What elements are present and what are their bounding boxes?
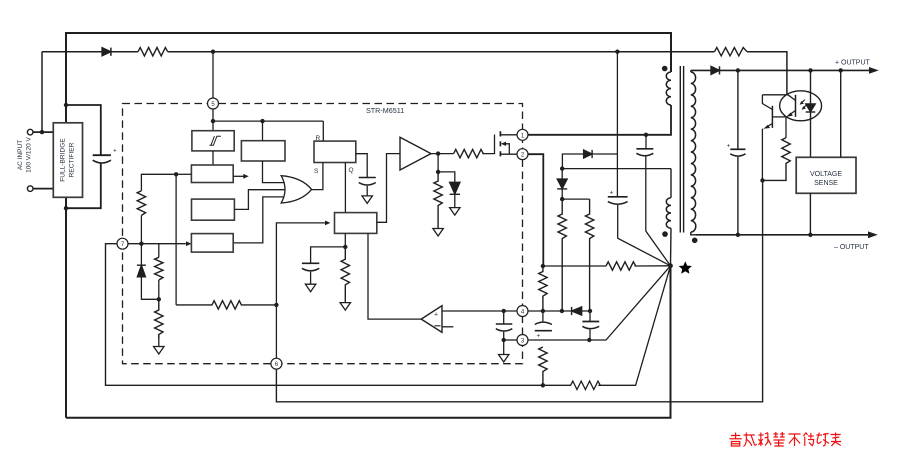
node drain cap	[644, 133, 648, 137]
node feedback pin6	[274, 303, 278, 307]
svg-text:VOLTAGE: VOLTAGE	[810, 171, 842, 178]
pin 2	[517, 149, 528, 160]
core lines	[680, 66, 683, 233]
primary polarity dot	[662, 66, 668, 72]
wire pin4 line right of pin	[528, 310, 590, 312]
node snubber top	[560, 166, 564, 170]
wire node199 right	[562, 198, 589, 200]
svg-text:SENSE: SENSE	[814, 180, 838, 187]
wire to gate	[482, 135, 494, 154]
wire AC tap vertical	[41, 52, 43, 132]
zener diode on pin7 node	[140, 244, 142, 266]
wire osc to box3	[212, 151, 214, 165]
wire AC upper	[33, 131, 53, 133]
wire node left to cap	[311, 247, 346, 263]
wire Q output down to box5	[344, 163, 346, 213]
node vcc rail left	[211, 119, 215, 123]
secondary winding	[690, 70, 692, 72]
driver buffer	[400, 137, 431, 170]
wire left frame lower	[65, 197, 67, 417]
wire pin3 left	[504, 339, 517, 341]
ground	[305, 284, 315, 292]
wire comparator out to box5	[368, 233, 421, 319]
wire -output line	[695, 234, 868, 236]
diode startup	[102, 48, 111, 56]
svg-text:+: +	[113, 148, 117, 155]
ground	[433, 229, 443, 237]
diode pin4 line pointing left	[572, 307, 582, 315]
capacitor pin4 filter	[503, 311, 505, 324]
capacitor output filter	[737, 70, 739, 149]
svg-text:RECTIFIER: RECTIFIER	[69, 142, 76, 177]
wire box2 to OR input1	[263, 161, 285, 183]
svg-text:+: +	[537, 333, 541, 340]
wire pin7 return	[106, 244, 542, 386]
pin 6	[271, 358, 282, 369]
AC input terminal upper	[27, 129, 33, 135]
aux polarity dot	[662, 231, 668, 237]
MOSFET channel dashes	[499, 131, 501, 156]
capacitor bulk C1	[93, 154, 111, 156]
SR latch box	[314, 141, 356, 162]
svg-text:+ OUTPUT: + OUTPUT	[835, 60, 871, 67]
wire box3 left node	[176, 173, 191, 175]
wire bulk cap bottom	[66, 163, 101, 208]
wire aux top line	[562, 168, 671, 170]
pin 1	[517, 129, 528, 140]
node vcc rail mid	[260, 119, 264, 123]
wire box5 right loop to buffer	[377, 154, 400, 223]
svg-text:+: +	[727, 143, 731, 150]
node box5 bottom	[343, 245, 347, 249]
wire feedback into box5 with arrow	[276, 223, 325, 305]
node zener bottom	[157, 297, 161, 301]
pin 3	[517, 335, 528, 346]
resistor pin2 chain upper (543)	[539, 266, 547, 311]
resistor R left upper	[137, 191, 145, 216]
wire startup line y=51.7	[42, 51, 102, 53]
wire S input from OR	[311, 163, 323, 190]
box4	[191, 234, 233, 253]
ground	[362, 196, 372, 204]
oscillator hysteresis glyph	[209, 136, 221, 145]
resistor star to pin2 chain (y=266)	[543, 265, 606, 267]
node output cap	[736, 68, 740, 72]
node driver output	[436, 151, 440, 155]
wire after diode	[111, 51, 138, 53]
svg-text:S: S	[314, 168, 319, 175]
svg-text:FULL-BRIDGE: FULL-BRIDGE	[60, 138, 67, 182]
node pin3 line cap	[587, 338, 591, 342]
node pin7 divider	[139, 242, 143, 246]
wire startup to opto supply	[168, 51, 715, 53]
svg-text:+: +	[610, 190, 614, 197]
pin 7	[117, 238, 128, 249]
capacitor 543	[535, 322, 552, 324]
regulator box2	[241, 141, 285, 161]
wire comparator plus to pin4	[442, 310, 517, 312]
capacitor soft-start	[302, 262, 319, 264]
node pin4 line a	[541, 309, 545, 313]
node startup to pin5	[211, 50, 215, 54]
svg-text:Q: Q	[349, 167, 354, 174]
secondary polarity dot	[692, 238, 698, 244]
pin 5	[208, 98, 219, 109]
pin 4	[517, 306, 528, 317]
node pin7 return junction	[541, 383, 545, 387]
wire pin5 drop from startup line	[212, 52, 214, 98]
wire rail to box2	[262, 121, 264, 141]
snubber top wire	[562, 154, 583, 169]
MOSFET body arrow	[501, 142, 506, 146]
node box3 input	[174, 172, 178, 176]
wire box3b to OR input2	[234, 190, 284, 210]
wire resistor to pin7 node	[140, 215, 142, 243]
node AC line tap	[40, 130, 44, 134]
wire pin7 line with arrow into box4	[128, 243, 186, 245]
wire buffer out	[431, 153, 454, 155]
node snubber divider	[560, 197, 564, 201]
ground	[154, 347, 164, 355]
wire snubber cap feed from startup rail	[616, 52, 618, 154]
box3b	[192, 199, 235, 220]
ground	[499, 355, 509, 363]
stub minus input	[442, 326, 453, 328]
node pin4 line c	[588, 309, 592, 313]
diode snubber	[584, 150, 593, 158]
resistor opto emitter	[785, 117, 787, 138]
ground	[340, 303, 350, 311]
svg-text:+: +	[434, 312, 438, 319]
comparator	[421, 306, 442, 333]
clamp diode	[438, 172, 455, 182]
wire rectifier top tap to bulk cap	[66, 105, 101, 155]
opto light arrows	[802, 100, 805, 103]
capacitor timing	[359, 177, 376, 179]
node pin4 line b	[560, 309, 564, 313]
OR gate	[281, 176, 311, 203]
resistor buffer pulldown	[437, 154, 439, 172]
IC STR-M6511 dashed box	[123, 104, 523, 364]
resistor mid (158.8)	[158, 244, 160, 258]
resistor pin2 chain lower	[539, 347, 547, 385]
resistor opto supply	[715, 48, 748, 56]
box5 pwm	[335, 213, 377, 234]
wire pin6 return	[276, 180, 762, 401]
wire AC lower	[33, 188, 53, 190]
resistor bottom return (570-598)	[542, 266, 671, 390]
wire OR input3	[233, 197, 284, 243]
zener snubber	[561, 169, 563, 179]
MOSFET source	[500, 153, 517, 155]
diode output rectifier	[691, 69, 711, 71]
node pin2 star resistor	[541, 264, 545, 268]
arrow box3 output	[233, 175, 244, 177]
svg-text:– OUTPUT: – OUTPUT	[834, 244, 869, 251]
wire sense tap	[840, 70, 842, 157]
label AC INPUT	[17, 136, 33, 172]
node sense return	[808, 233, 812, 237]
voltage sense box	[796, 157, 856, 193]
wire to opto collector	[747, 52, 787, 95]
capacitor 590	[589, 311, 591, 322]
capacitor snubber (617)	[616, 154, 618, 197]
resistor gate	[454, 149, 484, 157]
full-bridge rectifier box	[53, 123, 82, 198]
aux winding	[670, 169, 672, 198]
wire vcc rail y=121.1	[213, 120, 323, 122]
svg-text:R: R	[316, 135, 321, 142]
resistor horizontal bottom (212-245)	[176, 301, 276, 309]
resistor snubber left	[558, 199, 566, 311]
svg-text:STR-M6511: STR-M6511	[366, 106, 404, 115]
MOSFET drain	[500, 134, 517, 136]
ground	[450, 208, 460, 216]
opto phototransistor	[795, 95, 797, 117]
wire top frame y=33	[66, 33, 671, 123]
wire pin6 top	[275, 305, 277, 358]
resistor lower to ground	[155, 299, 163, 339]
wire pin3 line	[528, 266, 671, 340]
wire pin2 down	[528, 154, 543, 266]
wire pin5 to osc	[212, 109, 214, 131]
wire node to left resistor	[141, 174, 176, 190]
opto coupler ellipse	[780, 91, 822, 121]
box3	[191, 165, 233, 183]
node clamp branch	[436, 170, 440, 174]
opto LED	[810, 70, 812, 104]
watermark red text (CJK drawn as strokes)	[730, 432, 842, 447]
star junction	[668, 263, 673, 268]
wire pin1 to transformer	[528, 105, 671, 135]
wire +output line	[720, 69, 870, 71]
svg-text:100 V/120 V: 100 V/120 V	[26, 136, 33, 172]
node startup to snubber	[615, 50, 619, 54]
AC input terminal lower	[27, 186, 33, 192]
oscillator box	[192, 131, 234, 151]
capacitor pin1 snubber (646)	[645, 135, 647, 149]
node output return cap	[736, 233, 740, 237]
node rectifier -	[64, 206, 68, 210]
star glyph	[679, 261, 692, 273]
resistor snubber right	[585, 199, 593, 311]
node opto LED	[808, 68, 812, 72]
wire node down to box3 feedback vertical	[175, 174, 177, 305]
node sense tap	[839, 68, 843, 72]
transistor external	[771, 106, 773, 128]
wire R input	[322, 121, 324, 141]
node pin3 filter cap	[502, 338, 506, 342]
node opto emitter return	[760, 178, 764, 182]
svg-text:AC INPUT: AC INPUT	[17, 140, 24, 170]
wire box5 bottom node	[344, 233, 346, 247]
wire SR right to timing cap	[356, 154, 367, 178]
wire VS bottom to -output	[809, 193, 811, 235]
primary winding	[666, 72, 671, 105]
resistor below box5	[341, 247, 349, 303]
wire bottom frame y=417.8	[66, 266, 671, 418]
node pin4 filter cap	[502, 309, 506, 313]
node rectifier +	[64, 103, 68, 107]
resistor startup	[138, 48, 168, 56]
